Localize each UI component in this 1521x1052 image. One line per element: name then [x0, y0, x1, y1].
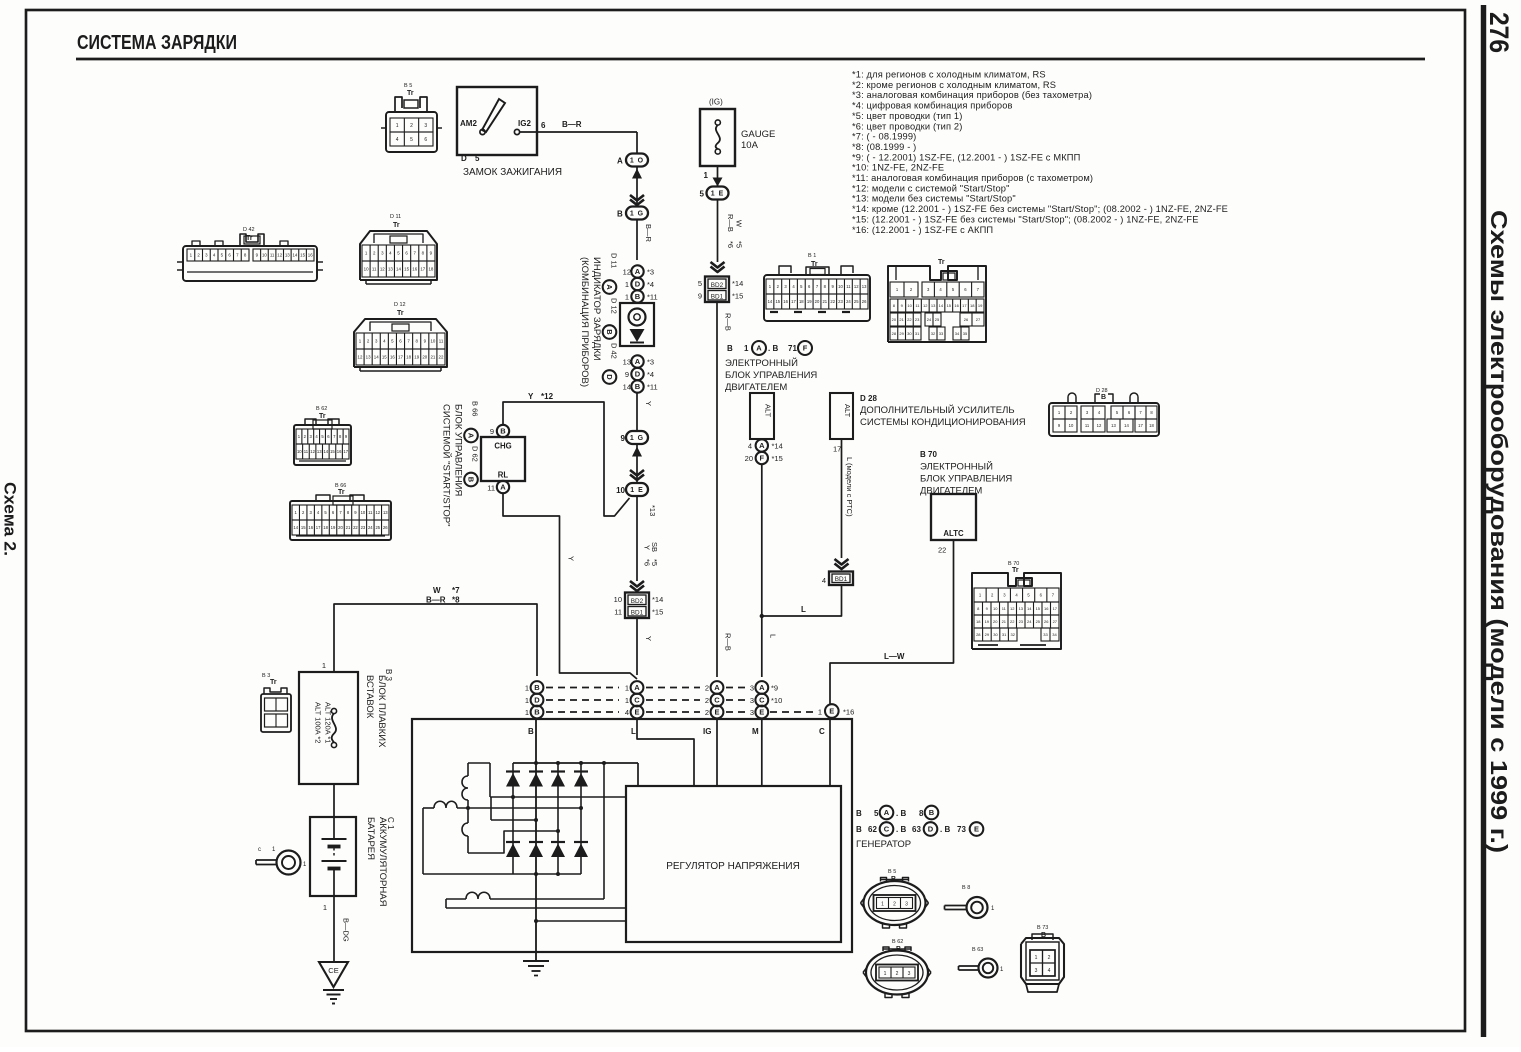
svg-text:15: 15 — [330, 449, 335, 454]
ECU ALT box 1 — [750, 393, 774, 439]
svg-text:10: 10 — [907, 303, 912, 308]
svg-text:3: 3 — [750, 696, 754, 705]
svg-text:19: 19 — [331, 525, 336, 530]
svg-text:10: 10 — [614, 595, 622, 604]
svg-text:A: A — [759, 441, 765, 450]
svg-text:B: B — [856, 825, 862, 834]
svg-text:15: 15 — [301, 525, 306, 530]
svg-text:4: 4 — [822, 576, 826, 585]
svg-text:*3: *3 — [647, 268, 654, 277]
svg-text:B 5: B 5 — [404, 83, 412, 89]
svg-text:L: L — [769, 634, 778, 638]
svg-text:10: 10 — [262, 253, 267, 258]
svg-text:13: 13 — [388, 267, 393, 272]
svg-text:2: 2 — [896, 971, 899, 977]
svg-text:RL: RL — [498, 471, 509, 480]
svg-text:19: 19 — [985, 619, 990, 624]
svg-text:*15: *15 — [652, 608, 663, 617]
svg-text:13: 13 — [931, 303, 936, 308]
svg-text:ALT 100A *2: ALT 100A *2 — [314, 702, 323, 743]
svg-text:B—R: B—R — [562, 120, 582, 129]
svg-text:Схемы электрооборудования (мод: Схемы электрооборудования (модели с 1999… — [1486, 210, 1512, 853]
svg-text:5: 5 — [410, 137, 413, 143]
svg-text:БЛОК ПЛАВКИХ: БЛОК ПЛАВКИХ — [376, 675, 387, 748]
svg-text:A: A — [635, 357, 641, 366]
svg-text:BD1: BD1 — [711, 293, 724, 300]
svg-text:. B: . B — [896, 809, 906, 818]
svg-text:14: 14 — [292, 253, 297, 258]
flow arrow up — [632, 447, 642, 457]
svg-text:11: 11 — [846, 284, 851, 289]
svg-text:14: 14 — [374, 355, 379, 360]
svg-text:24: 24 — [927, 317, 932, 322]
svg-text:12: 12 — [923, 303, 928, 308]
svg-text:12: 12 — [358, 355, 363, 360]
svg-text:12: 12 — [1097, 423, 1102, 428]
svg-text:C: C — [634, 696, 640, 705]
svg-text:18: 18 — [799, 299, 804, 304]
svg-text:1: 1 — [396, 123, 399, 129]
svg-text:Tr: Tr — [338, 489, 345, 496]
svg-text:ALTC: ALTC — [943, 529, 964, 538]
svg-text:Tr: Tr — [1012, 567, 1019, 574]
svg-text:16: 16 — [308, 253, 313, 258]
ground CE triangle — [319, 962, 348, 987]
junction row dashes C — [546, 699, 619, 701]
svg-text:1: 1 — [704, 171, 709, 180]
svg-text:BD1: BD1 — [835, 576, 848, 583]
svg-text:27: 27 — [1053, 619, 1058, 624]
stator phase tap y831 — [468, 831, 558, 853]
chevron arrows down — [630, 581, 644, 587]
svg-text:4: 4 — [748, 442, 752, 451]
svg-text:A: A — [759, 683, 765, 692]
svg-text:18: 18 — [1149, 423, 1154, 428]
svg-text:16: 16 — [1044, 606, 1049, 611]
alternator outer box — [412, 719, 852, 952]
svg-text:13: 13 — [366, 355, 371, 360]
svg-text:BD2: BD2 — [631, 598, 644, 605]
svg-text:A: A — [466, 433, 475, 439]
svg-text:9: 9 — [490, 427, 494, 436]
svg-text:11: 11 — [1085, 423, 1090, 428]
svg-text:C: C — [884, 825, 890, 834]
svg-text:3: 3 — [908, 971, 911, 977]
svg-text:10: 10 — [361, 510, 366, 515]
connector D5 Tr (ignition switch connector icon) — [386, 112, 437, 152]
svg-text:BD1: BD1 — [631, 609, 644, 616]
svg-text:R—B: R—B — [726, 214, 735, 232]
svg-text:13: 13 — [285, 253, 290, 258]
svg-text:D 42: D 42 — [610, 343, 619, 359]
wire Y from RL to junction row — [503, 494, 637, 680]
svg-text:1: 1 — [818, 708, 822, 717]
wire IG inside — [716, 719, 718, 787]
svg-text:12: 12 — [380, 267, 385, 272]
svg-text:ALT: ALT — [843, 404, 852, 418]
svg-text:8: 8 — [919, 809, 924, 818]
svg-text:29: 29 — [985, 632, 990, 637]
svg-text:*14: *14 — [772, 442, 783, 451]
svg-text:18: 18 — [428, 267, 433, 272]
svg-text:13: 13 — [383, 510, 388, 515]
wire L (модели с РТС) — [841, 439, 843, 558]
svg-text:*12: модели с системой "Start/: *12: модели с системой "Start/Stop" — [852, 183, 1010, 193]
stator phase bus y797 — [490, 796, 626, 798]
svg-text:3: 3 — [905, 902, 908, 908]
svg-text:18: 18 — [323, 525, 328, 530]
svg-text:17: 17 — [398, 355, 403, 360]
svg-text:B 73: B 73 — [1037, 925, 1048, 931]
svg-text:*10: 1NZ-FE, 2NZ-FE: *10: 1NZ-FE, 2NZ-FE — [852, 163, 944, 173]
svg-text:*8: *8 — [452, 596, 460, 605]
wire Y — [636, 393, 638, 432]
wire W*7 B-R*8 supply line — [334, 604, 537, 676]
svg-text:13: 13 — [1019, 606, 1024, 611]
svg-text:Tr: Tr — [270, 679, 277, 686]
svg-text:B 5: B 5 — [888, 869, 896, 875]
svg-text:(IG): (IG) — [709, 98, 723, 107]
svg-text:10: 10 — [616, 486, 625, 495]
svg-text:L—W: L—W — [884, 652, 905, 661]
svg-text:14: 14 — [293, 525, 298, 530]
svg-text:14: 14 — [768, 299, 773, 304]
svg-text:21: 21 — [346, 525, 351, 530]
svg-text:63: 63 — [912, 825, 921, 834]
svg-text:C: C — [819, 727, 825, 736]
svg-text:*15: *15 — [732, 292, 743, 301]
svg-text:*6: *6 — [726, 241, 735, 248]
svg-text:IG2: IG2 — [518, 119, 531, 128]
svg-text:Tr: Tr — [407, 90, 414, 97]
svg-text:ИНДИКАТОР ЗАРЯДКИ: ИНДИКАТОР ЗАРЯДКИ — [591, 257, 602, 361]
svg-text:2: 2 — [1048, 955, 1051, 961]
svg-text:F: F — [760, 454, 765, 463]
wire ign to connector A — [636, 132, 638, 154]
svg-text:16: 16 — [337, 449, 342, 454]
svg-text:18: 18 — [976, 619, 981, 624]
svg-text:10: 10 — [838, 284, 843, 289]
svg-text:4: 4 — [396, 137, 399, 143]
svg-text:27: 27 — [976, 317, 981, 322]
svg-text:E: E — [634, 708, 639, 717]
svg-text:3: 3 — [424, 123, 427, 129]
svg-text:Y: Y — [644, 401, 653, 406]
svg-text:17: 17 — [1138, 423, 1143, 428]
svg-text:*4: цифровая комбинация прибор: *4: цифровая комбинация приборов — [852, 101, 1013, 111]
svg-text:26: 26 — [862, 299, 867, 304]
wire L down to junction row M — [761, 464, 763, 677]
wire Y *12 from CHG to node 10 — [503, 402, 630, 516]
svg-text:. B: . B — [896, 825, 906, 834]
svg-text:B: B — [635, 382, 641, 391]
svg-text:*1: для регионов с холодным кл: *1: для регионов с холодным климатом, RS — [852, 70, 1046, 80]
svg-text:1: 1 — [323, 903, 327, 912]
relay box CHG/RL — [481, 437, 525, 481]
svg-text:1: 1 — [525, 708, 529, 717]
svg-text:1: 1 — [884, 971, 887, 977]
svg-text:3: 3 — [750, 708, 754, 717]
svg-text:*11: *11 — [647, 383, 658, 392]
svg-text:3: 3 — [750, 684, 754, 693]
svg-text:19: 19 — [978, 303, 983, 308]
svg-text:СИСТЕМЫ КОНДИЦИОНИРОВАНИЯ: СИСТЕМЫ КОНДИЦИОНИРОВАНИЯ — [860, 417, 1026, 428]
svg-text:33: 33 — [1043, 632, 1048, 637]
svg-text:A: A — [756, 344, 762, 353]
svg-text:ЭЛЕКТРОННЫЙ: ЭЛЕКТРОННЫЙ — [725, 357, 798, 369]
svg-text:26: 26 — [1044, 619, 1049, 624]
svg-text:12: 12 — [623, 268, 631, 277]
svg-text:20: 20 — [745, 454, 753, 463]
svg-text:16: 16 — [412, 267, 417, 272]
svg-text:E: E — [714, 708, 719, 717]
rectifier bottom bus — [513, 873, 581, 875]
svg-text:28: 28 — [892, 331, 897, 336]
svg-text:71: 71 — [788, 344, 797, 353]
svg-text:29: 29 — [899, 331, 904, 336]
svg-text:ЭЛЕКТРОННЫЙ: ЭЛЕКТРОННЫЙ — [920, 461, 993, 473]
svg-text:GAUGE: GAUGE — [741, 129, 775, 140]
svg-text:4: 4 — [625, 708, 629, 717]
svg-text:*14: *14 — [652, 595, 663, 604]
svg-text:. B: . B — [768, 344, 778, 353]
svg-text:Tr: Tr — [319, 413, 326, 420]
svg-text:10: 10 — [993, 606, 998, 611]
rotor field line with coil — [446, 898, 466, 900]
svg-text:B—DG: B—DG — [342, 918, 351, 942]
svg-text:22: 22 — [1010, 619, 1015, 624]
svg-text:D 12: D 12 — [394, 302, 406, 308]
svg-text:АККУМУЛЯТОРНАЯ: АККУМУЛЯТОРНАЯ — [377, 817, 388, 907]
svg-text:B 63: B 63 — [972, 947, 983, 953]
svg-text:. B: . B — [940, 825, 950, 834]
svg-text:БЛОК УПРАВЛЕНИЯ: БЛОК УПРАВЛЕНИЯ — [725, 370, 817, 381]
svg-text:A: A — [605, 284, 614, 290]
svg-text:Y: Y — [528, 392, 534, 401]
svg-text:*5: цвет проводки (тип 1): *5: цвет проводки (тип 1) — [852, 111, 962, 121]
svg-text:B—R: B—R — [644, 224, 653, 243]
svg-text:2: 2 — [410, 123, 413, 129]
svg-text:Y: Y — [644, 636, 653, 641]
svg-text:5: 5 — [475, 154, 480, 163]
svg-text:15: 15 — [300, 253, 305, 258]
svg-text:B: B — [617, 210, 623, 219]
svg-text:B: B — [635, 292, 641, 301]
ALTC box — [931, 494, 976, 540]
svg-text:1 G: 1 G — [630, 435, 644, 442]
svg-text:25: 25 — [375, 525, 380, 530]
svg-text:16: 16 — [390, 355, 395, 360]
svg-text:B 1: B 1 — [808, 253, 816, 259]
svg-text:17: 17 — [420, 267, 425, 272]
svg-text:*9: *9 — [771, 684, 778, 693]
junction row dashes E — [546, 711, 619, 713]
svg-text:23: 23 — [1019, 619, 1024, 624]
svg-text:CE: CE — [328, 966, 338, 975]
svg-text:1: 1 — [881, 902, 884, 908]
svg-text:C: C — [714, 696, 720, 705]
svg-text:6: 6 — [424, 137, 427, 143]
svg-text:11: 11 — [372, 267, 377, 272]
svg-text:*2: кроме регионов с холодным: *2: кроме регионов с холодным климатом, … — [852, 80, 1056, 90]
svg-text:Tr: Tr — [397, 310, 404, 317]
svg-text:A: A — [714, 683, 720, 692]
svg-text:A: A — [884, 808, 890, 817]
svg-text:*15: *15 — [772, 454, 783, 463]
svg-text:*9: ( - 12.2001) 1SZ-FE, (12.2: *9: ( - 12.2001) 1SZ-FE, (12.2001 - ) 1S… — [852, 152, 1080, 162]
svg-text:19: 19 — [414, 355, 419, 360]
svg-text:10: 10 — [1069, 423, 1074, 428]
svg-text:10: 10 — [297, 449, 302, 454]
svg-text:2: 2 — [705, 696, 709, 705]
svg-text:17: 17 — [791, 299, 796, 304]
wire B-DG to ground CE — [333, 896, 335, 962]
wire C inside — [829, 719, 831, 787]
svg-text:17: 17 — [316, 525, 321, 530]
connector B62 oval 3-pin — [866, 951, 928, 995]
ignition switch D5 box — [457, 87, 537, 155]
ground at alternator B — [523, 960, 549, 962]
ignition key lever — [482, 99, 505, 132]
svg-text:ALT 120A *1: ALT 120A *1 — [324, 702, 333, 743]
svg-text:23: 23 — [838, 299, 843, 304]
svg-text:1: 1 — [625, 696, 629, 705]
svg-text:14: 14 — [1027, 606, 1032, 611]
svg-text:34: 34 — [1052, 632, 1057, 637]
svg-text:28: 28 — [976, 632, 981, 637]
svg-text:CHG: CHG — [494, 442, 511, 451]
svg-text:1: 1 — [625, 684, 629, 693]
svg-text:17: 17 — [962, 303, 967, 308]
svg-text:*6: цвет проводки (тип 2): *6: цвет проводки (тип 2) — [852, 121, 962, 131]
charge indicator lamp box — [620, 303, 654, 346]
svg-text:B: B — [1101, 394, 1106, 401]
svg-text:(КОМБИНАЦИЯ ПРИБОРОВ): (КОМБИНАЦИЯ ПРИБОРОВ) — [579, 257, 590, 387]
svg-text:10: 10 — [364, 267, 369, 272]
svg-text:30: 30 — [907, 331, 912, 336]
svg-text:AM2: AM2 — [460, 119, 477, 128]
svg-text:*3: аналоговая комбинация приб: *3: аналоговая комбинация приборов (без … — [852, 90, 1092, 100]
svg-text:B 8: B 8 — [962, 885, 970, 891]
B sense line to regulator — [536, 920, 626, 922]
svg-text:B—R: B—R — [426, 596, 446, 605]
svg-text:D 12: D 12 — [610, 298, 619, 314]
svg-text:20: 20 — [422, 355, 427, 360]
svg-text:L (модели с РТС): L (модели с РТС) — [845, 457, 854, 517]
svg-text:Y: Y — [643, 545, 652, 550]
svg-text:9: 9 — [698, 292, 702, 301]
svg-text:11: 11 — [304, 449, 309, 454]
wire L-W — [830, 540, 954, 704]
svg-text:15: 15 — [775, 299, 780, 304]
svg-text:23: 23 — [361, 525, 366, 530]
svg-text:1: 1 — [525, 684, 529, 693]
svg-text:E: E — [974, 825, 979, 834]
svg-text:32: 32 — [1010, 632, 1015, 637]
flow arrow up — [632, 169, 642, 179]
svg-text:*11: аналоговая комбинация при: *11: аналоговая комбинация приборов (с т… — [852, 173, 1093, 183]
stator coil horizontal y808 — [423, 807, 434, 809]
svg-text:21: 21 — [1002, 619, 1007, 624]
chevron arrows down — [711, 262, 725, 268]
svg-text:ДВИГАТЕЛЕМ: ДВИГАТЕЛЕМ — [725, 382, 787, 393]
ground hatching — [323, 989, 344, 991]
svg-text:73: 73 — [957, 825, 966, 834]
svg-text:B: B — [466, 477, 475, 483]
svg-text:25: 25 — [854, 299, 859, 304]
svg-text:15: 15 — [382, 355, 387, 360]
svg-text:15: 15 — [404, 267, 409, 272]
svg-text:L: L — [631, 727, 636, 736]
svg-text:20: 20 — [993, 619, 998, 624]
svg-text:1: 1 — [744, 344, 749, 353]
indicator diode — [630, 329, 645, 342]
svg-text:ВСТАВОК: ВСТАВОК — [364, 675, 375, 719]
svg-text:*10: *10 — [771, 696, 782, 705]
chevron arrows down — [630, 470, 644, 476]
svg-text:30: 30 — [993, 632, 998, 637]
svg-text:B: B — [929, 808, 935, 817]
svg-text:*3: *3 — [647, 358, 654, 367]
svg-text:D: D — [605, 374, 614, 380]
svg-text:БЛОК УПРАВЛЕНИЯ: БЛОК УПРАВЛЕНИЯ — [453, 404, 464, 496]
svg-text:12: 12 — [1010, 606, 1015, 611]
svg-text:*12: *12 — [541, 392, 554, 401]
svg-text:14: 14 — [939, 303, 944, 308]
svg-text:B: B — [605, 329, 614, 335]
svg-text:19: 19 — [807, 299, 812, 304]
svg-text:3: 3 — [1035, 968, 1038, 974]
svg-text:Схема 2.: Схема 2. — [1, 482, 19, 556]
svg-text:ДОПОЛНИТЕЛЬНЫЙ УСИЛИТЕЛЬ: ДОПОЛНИТЕЛЬНЫЙ УСИЛИТЕЛЬ — [860, 404, 1015, 416]
svg-text:B: B — [528, 727, 534, 736]
junction row dashes A — [546, 687, 619, 689]
svg-text:1: 1 — [322, 661, 326, 670]
rectifier top bus — [513, 762, 638, 764]
svg-text:16: 16 — [954, 303, 959, 308]
svg-text:A: A — [634, 683, 640, 692]
svg-text:14: 14 — [396, 267, 401, 272]
svg-text:D: D — [928, 825, 934, 834]
svg-text:B 66: B 66 — [471, 401, 480, 416]
svg-text:*16: *16 — [843, 708, 854, 717]
svg-text:1: 1 — [625, 293, 629, 302]
svg-text:6: 6 — [541, 121, 546, 130]
svg-text:ALT: ALT — [764, 404, 773, 418]
svg-text:12: 12 — [854, 284, 859, 289]
svg-text:*11: *11 — [647, 293, 658, 302]
svg-text:B 62: B 62 — [316, 406, 327, 412]
svg-text:Tr: Tr — [938, 259, 945, 266]
svg-text:22: 22 — [353, 525, 358, 530]
svg-text:*4: *4 — [647, 370, 654, 379]
svg-text:2: 2 — [705, 684, 709, 693]
svg-text:13: 13 — [1111, 423, 1116, 428]
svg-text:15: 15 — [1036, 606, 1041, 611]
svg-text:11: 11 — [487, 484, 495, 493]
wire Y to junction row — [636, 618, 638, 675]
svg-text:17: 17 — [1053, 606, 1058, 611]
svg-text:1: 1 — [625, 280, 629, 289]
sidebar divider bar — [1481, 5, 1486, 1037]
svg-text:21: 21 — [899, 317, 904, 322]
svg-text:B: B — [727, 344, 733, 353]
svg-text:10A: 10A — [741, 140, 759, 151]
svg-text:17: 17 — [833, 445, 841, 454]
rectifier diodes top row — [506, 770, 520, 772]
chevron arrows down — [630, 195, 644, 201]
svg-text:*13: *13 — [648, 505, 657, 516]
